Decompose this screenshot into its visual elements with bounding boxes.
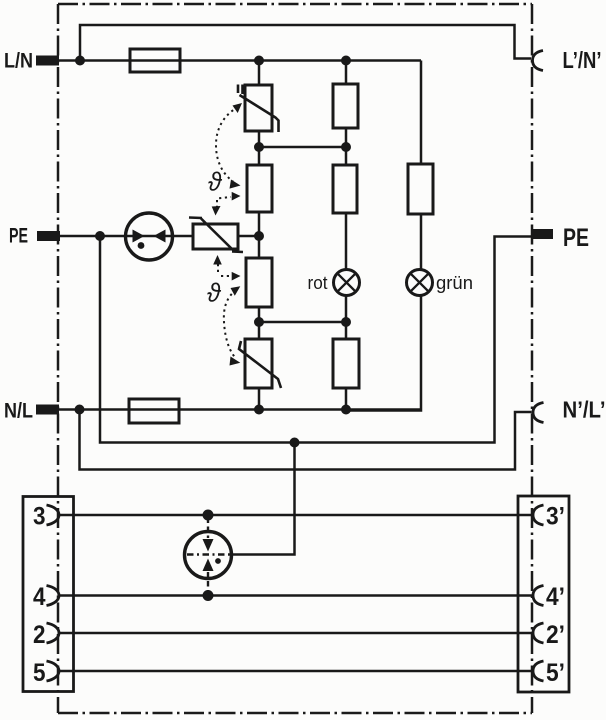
- thermal arrow lower arc: [224, 290, 236, 359]
- svg-text:PE: PE: [563, 224, 589, 252]
- wire L/N row: [59, 59, 421, 62]
- fuse F2: [129, 399, 179, 423]
- cross wire row 147: [259, 146, 346, 149]
- junction line3 GDT: [203, 510, 214, 521]
- disconnect R1a: [247, 165, 272, 212]
- wire line 2: [59, 632, 533, 635]
- wire line 4: [59, 594, 533, 597]
- terminal PE right: [531, 224, 589, 252]
- junction row322 col2: [341, 317, 351, 327]
- column 3 vertical wire: [346, 61, 421, 411]
- svg-text:L/N: L/N: [4, 50, 33, 73]
- junction N/L-a: [75, 405, 85, 415]
- svg-text:4’: 4’: [546, 583, 565, 611]
- terminal 2': [533, 621, 565, 649]
- GDT G2a: [333, 84, 358, 128]
- wire PE row: [60, 235, 259, 238]
- terminal PE left: [9, 225, 60, 248]
- terminal 5: [33, 659, 59, 687]
- svg-text:PE: PE: [9, 225, 28, 248]
- column 1 vertical wire: [258, 61, 261, 410]
- junction line4 GDT: [203, 590, 214, 601]
- lamp gruen: [407, 270, 474, 296]
- terminal 5': [533, 659, 565, 687]
- terminal 3: [33, 503, 59, 531]
- terminal 4': [533, 583, 565, 611]
- svg-text:5: 5: [33, 659, 46, 687]
- svg-text:N/L: N/L: [4, 400, 33, 423]
- cross wire row 322: [259, 321, 346, 324]
- gas discharge tube G4 (lines 3/4): [185, 518, 232, 594]
- junction PE link: [290, 438, 300, 448]
- junction PE-a: [95, 231, 105, 241]
- junction PE col1: [254, 231, 264, 241]
- terminal N/L: [4, 400, 59, 423]
- varistor V2: [239, 339, 281, 388]
- terminal 3': [533, 503, 565, 531]
- svg-text:2’: 2’: [546, 621, 565, 649]
- svg-text:L’/N’: L’/N’: [563, 47, 602, 73]
- terminal L/N: [4, 50, 59, 73]
- junction L/N-a: [75, 56, 85, 66]
- wire PE cross link: [100, 236, 531, 443]
- junction row147 col1: [254, 142, 264, 152]
- svg-text:2: 2: [33, 621, 46, 649]
- svg-text:rot: rot: [308, 273, 328, 293]
- thermal arrow upper elbow: [217, 197, 231, 208]
- junction col2 top: [341, 56, 351, 66]
- varistor V1: [238, 85, 279, 133]
- junction col1 bottom: [254, 405, 264, 415]
- GDT G2b: [333, 165, 357, 213]
- varistor V3 (horizontal, PE branch): [189, 218, 243, 253]
- svg-text:ϑ: ϑ: [207, 278, 221, 308]
- svg-text:N’/L’: N’/L’: [563, 397, 606, 423]
- svg-text:3: 3: [33, 503, 46, 531]
- junction col1 top: [254, 56, 264, 66]
- thermal arrow lower elbow: [218, 263, 232, 276]
- spark gap F-left (circle with arrows): [126, 213, 173, 260]
- wire N/L row: [59, 408, 421, 411]
- svg-text:grün: grün: [436, 273, 473, 293]
- wire line 5: [59, 670, 533, 673]
- lamp rot: [308, 270, 360, 296]
- svg-text:ϑ: ϑ: [208, 167, 222, 197]
- GDT G3: [408, 164, 433, 214]
- terminal 2: [33, 621, 59, 649]
- wire GDT center electrode to PE link: [231, 443, 295, 555]
- junction row147 col2: [341, 142, 351, 152]
- fuse F1: [130, 49, 180, 72]
- terminal hook L'/N': [533, 47, 602, 73]
- svg-text:5’: 5’: [546, 659, 565, 687]
- terminal 4: [33, 583, 59, 611]
- wire L/N top detour to L'/N': [80, 25, 531, 61]
- lower terminal block left: [23, 497, 74, 692]
- junction col2 bottom: [341, 405, 351, 415]
- column 2 vertical wire: [345, 61, 348, 410]
- lower terminal block right: [518, 496, 569, 692]
- wire line 3: [59, 514, 533, 517]
- enclosure border (phantom dash-dot): [58, 4, 532, 713]
- svg-text:3’: 3’: [546, 503, 565, 531]
- junction row322 col1: [254, 317, 264, 327]
- disconnect R1b: [246, 258, 272, 307]
- wire N/L bottom detour to N'/L': [80, 410, 532, 470]
- terminal hook N'/L': [533, 397, 606, 423]
- svg-text:4: 4: [33, 583, 46, 611]
- GDT G2c: [333, 339, 359, 388]
- thermal arrow upper arc: [216, 107, 238, 182]
